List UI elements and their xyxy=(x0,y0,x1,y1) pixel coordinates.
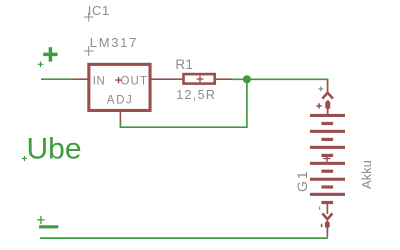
svg-text:R1: R1 xyxy=(175,57,193,72)
op-amp-regulator IC1 LM317 box xyxy=(89,64,150,110)
battery G1 cell bars (short plates) xyxy=(321,122,333,204)
name label IC1 xyxy=(88,3,110,18)
svg-text:ADJ: ADJ xyxy=(107,95,134,107)
origin cross of IC1 label xyxy=(84,13,93,22)
svg-text:Akku: Akku xyxy=(359,160,374,189)
battery G1 cell bars (long plates) xyxy=(310,114,345,196)
pin stub IN (maroon) xyxy=(73,78,88,80)
battery bottom pin pad oval xyxy=(325,220,330,229)
battery bottom pin chevron xyxy=(322,213,332,219)
resistor R1 body xyxy=(184,74,215,84)
wire: bottom return net xyxy=(40,237,328,239)
red - pad label bottom (rotated tick) xyxy=(321,224,323,227)
pin stub OUT to resistor (maroon) xyxy=(152,78,183,80)
origin cross of + flag xyxy=(38,62,44,68)
svg-text:IN: IN xyxy=(93,75,106,87)
pin stub ADJ (maroon) xyxy=(119,112,121,123)
svg-text:IC1: IC1 xyxy=(88,3,110,18)
origin cross of LM317 label xyxy=(84,46,94,56)
wire: feedback from junction down and to ADJ pin xyxy=(120,79,246,127)
value label LM317 xyxy=(90,35,138,50)
origin cross of - flag xyxy=(37,216,44,224)
origin cross inside IC1 box xyxy=(115,77,121,83)
svg-text:G1: G1 xyxy=(294,169,310,192)
svg-text:OUT: OUT xyxy=(121,75,149,87)
svg-text:LM317: LM317 xyxy=(90,35,138,50)
svg-text:Ube: Ube xyxy=(27,133,82,166)
junction dot xyxy=(243,75,251,83)
battery G1 top pin line xyxy=(327,79,329,93)
svg-text:12,5R: 12,5R xyxy=(176,88,216,102)
origin cross of Ube label xyxy=(22,156,27,161)
gray - pin name bottom (rotated tick) xyxy=(319,207,321,210)
net label Ube xyxy=(27,133,82,166)
origin cross of battery G1 xyxy=(324,155,331,162)
battery top pin pad oval xyxy=(325,100,330,110)
battery G1 bottom pin line xyxy=(326,204,328,214)
battery top pin chevron xyxy=(322,93,333,99)
supply flag - (negative) xyxy=(39,225,58,228)
wire: input net to IN pin xyxy=(41,78,73,80)
supply flag + (positive) xyxy=(43,47,57,61)
red + pad label top xyxy=(316,103,321,108)
pin stub resistor right (maroon) xyxy=(216,78,233,80)
wire: resistor to battery (output net) xyxy=(232,78,328,80)
battery top pin line lower segment xyxy=(327,110,329,115)
origin cross of resistor R1 xyxy=(197,76,204,83)
gray + pin name top xyxy=(318,86,323,91)
battery bottom pin line lower segment xyxy=(326,228,328,237)
